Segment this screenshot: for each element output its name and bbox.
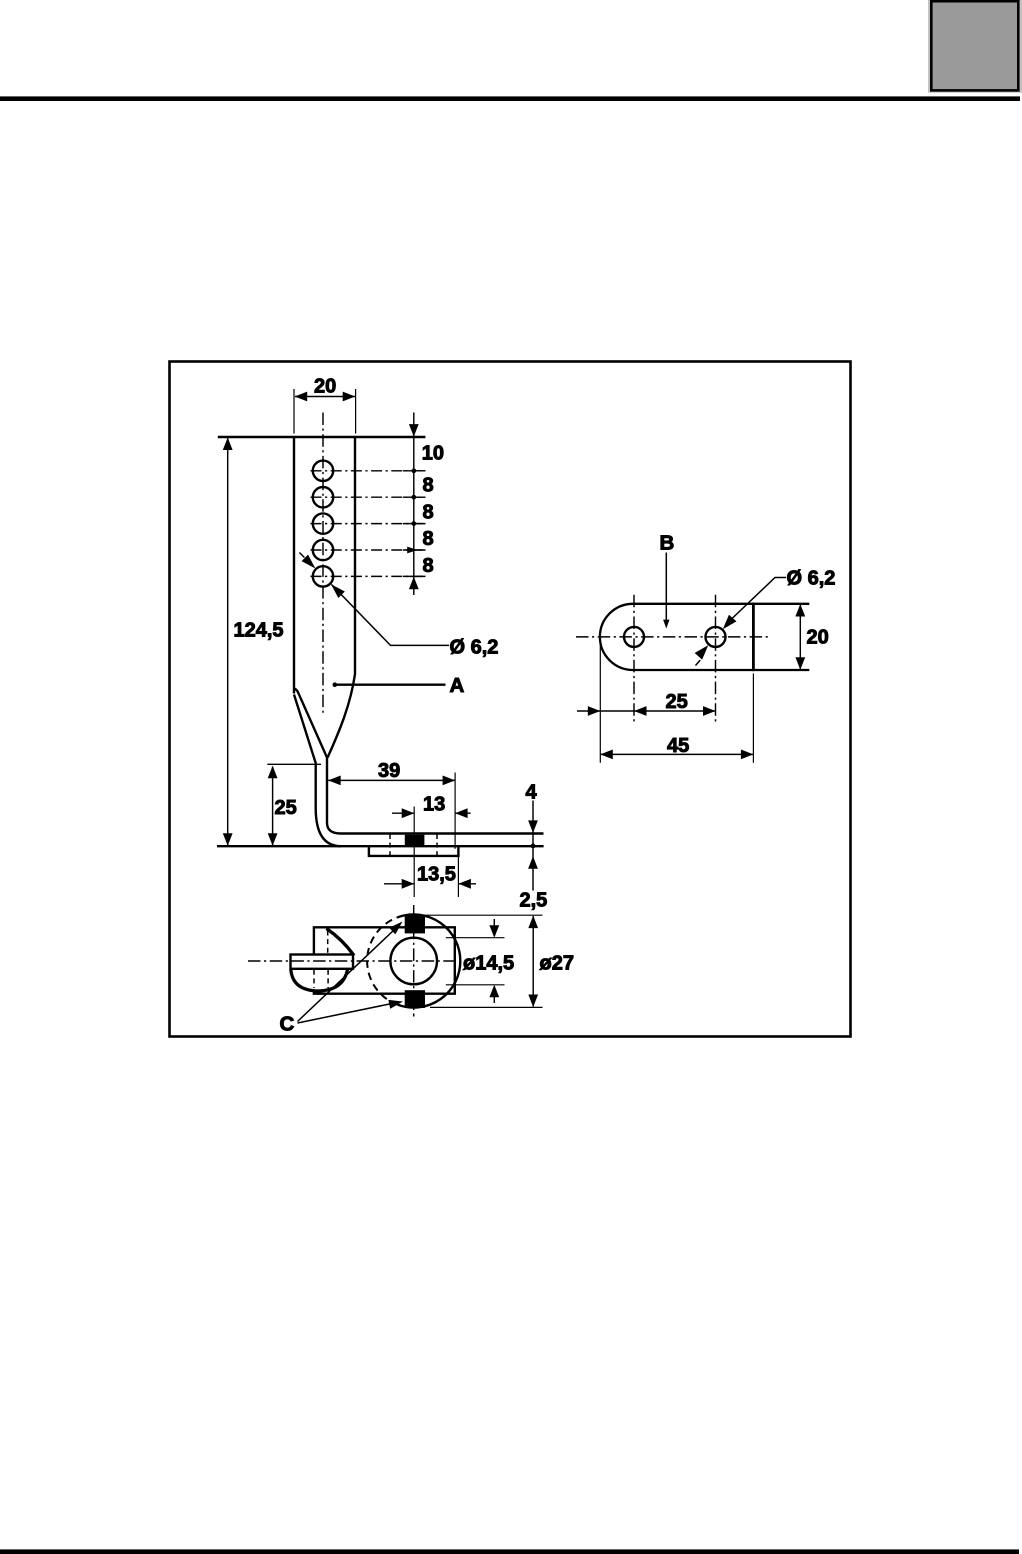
svg-text:8: 8: [423, 501, 434, 523]
svg-text:2,5: 2,5: [520, 890, 548, 912]
hole 4: [313, 540, 333, 560]
weld square top (view C): [405, 915, 425, 934]
page footer rule: [0, 1549, 1019, 1554]
dimension diameter 14,5: [446, 919, 514, 1003]
svg-text:13,5: 13,5: [417, 864, 456, 886]
node B leader: [660, 532, 675, 629]
hole 2: [313, 487, 333, 507]
plate B rounded left end: [600, 604, 633, 670]
svg-text:25: 25: [275, 797, 297, 819]
svg-text:8: 8: [423, 475, 434, 497]
svg-text:B: B: [660, 532, 675, 555]
hole 5: [313, 566, 333, 586]
hole 1 centerline: [311, 470, 425, 472]
dimension 25 (hole spacing B): [577, 640, 753, 763]
dimension 13,5 (lower plate): [384, 849, 476, 897]
svg-text:4: 4: [526, 782, 538, 804]
hidden line lower leaf left: [313, 970, 315, 988]
svg-text:8: 8: [423, 555, 434, 577]
bar left edge: [293, 437, 295, 694]
hole 4 centerline: [311, 549, 425, 551]
taper outer edge d2, neck left edge, bend into foot bottom: [294, 695, 341, 847]
node C leaders: [280, 922, 404, 1036]
plate B hole left: [624, 627, 644, 647]
figure frame: [170, 362, 851, 1037]
hole 5 centerline: [311, 575, 425, 577]
dimension 25 (foot height): [267, 764, 321, 846]
chapter tab gray square halo: [928, 0, 1022, 93]
svg-text:8: 8: [423, 528, 434, 550]
hole 1: [313, 461, 333, 481]
bend projection lower leaf: [291, 969, 348, 991]
svg-text:25: 25: [666, 691, 688, 713]
dimension 39 (foot length): [328, 760, 455, 849]
plate B right edge: [752, 603, 755, 671]
dimension 20 (plate B width): [795, 604, 828, 670]
hole 3 centerline: [311, 523, 425, 525]
vertical centerline view C: [413, 905, 415, 1017]
svg-text:C: C: [280, 1013, 295, 1036]
dimension diameter 27: [426, 915, 574, 1007]
plate B hole right: [706, 627, 726, 647]
boss outer circle hidden part (dashed): [367, 917, 398, 1005]
bar right edge with taper curve: [328, 437, 355, 758]
taper inner edge d1, neck right edge, bend into foot top: [294, 689, 543, 834]
weld square bottom (view C): [405, 990, 425, 1008]
plate B outline: [633, 604, 809, 670]
svg-text:ø27: ø27: [540, 953, 574, 975]
foot bottom line / 124.5 baseline: [217, 845, 544, 847]
node A leader: [333, 674, 465, 697]
bend projection upper leaf: [327, 929, 355, 956]
bar top edge: [218, 436, 426, 438]
bar centerline: [322, 413, 324, 714]
dimension 124,5 (bar height): [223, 438, 284, 846]
boss outer circle solid part: [398, 914, 461, 1007]
dimension 4 and 2,5 (plate thicknesses): [520, 782, 548, 912]
svg-text:20: 20: [807, 627, 829, 649]
foot plate rectangle: [314, 927, 455, 993]
svg-text:124,5: 124,5: [234, 620, 284, 642]
page header rule: [0, 96, 1020, 101]
svg-text:Ø 6,2: Ø 6,2: [450, 637, 499, 659]
dimension 45 (plate B length): [600, 735, 753, 759]
svg-text:45: 45: [667, 735, 689, 757]
hidden line upper leaf: [327, 931, 329, 954]
plate B right hole vertical centerline: [715, 595, 717, 722]
leader diameter 6,2 (main view): [299, 553, 498, 659]
svg-text:Ø 6,2: Ø 6,2: [787, 568, 836, 590]
foot lower plate: [369, 846, 459, 856]
hidden line lower leaf right: [327, 970, 329, 988]
svg-text:20: 20: [314, 376, 336, 398]
hidden hole edge left (dashed): [389, 834, 391, 856]
inner hole circle: [390, 938, 437, 985]
svg-text:39: 39: [378, 760, 400, 782]
svg-text:13: 13: [423, 794, 445, 816]
hole 3: [313, 513, 333, 533]
leader diameter 6,2 (view B): [695, 568, 836, 666]
hole 2 centerline: [311, 496, 425, 498]
hidden hole edge right (dashed): [436, 834, 438, 856]
hole spacing dimension column 10/8/8/8/8: [403, 413, 444, 596]
svg-text:ø14,5: ø14,5: [463, 953, 514, 975]
svg-text:10: 10: [422, 443, 444, 465]
horizontal centerline view C: [248, 960, 460, 962]
chapter tab gray square: [931, 1, 1018, 90]
plate B left hole vertical centerline: [633, 595, 635, 722]
svg-text:A: A: [450, 674, 465, 697]
weld black square (side view): [405, 835, 425, 846]
plate B horizontal centerline: [576, 636, 769, 638]
bar end section band: [291, 955, 354, 969]
dimension 13 (hole offset): [392, 794, 471, 898]
dimension 20 (bar width): [294, 376, 356, 434]
